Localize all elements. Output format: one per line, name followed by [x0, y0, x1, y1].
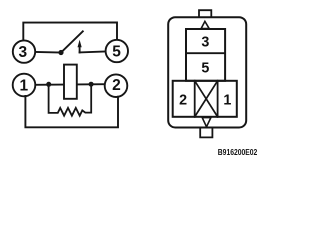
svg-text:2: 2 — [112, 77, 121, 94]
svg-text:2: 2 — [179, 93, 187, 109]
svg-text:1: 1 — [19, 78, 28, 95]
svg-text:3: 3 — [201, 34, 209, 50]
svg-text:3: 3 — [18, 44, 27, 61]
svg-text:B916200E02: B916200E02 — [218, 147, 258, 157]
svg-text:5: 5 — [201, 60, 209, 76]
svg-text:1: 1 — [223, 93, 231, 109]
svg-text:5: 5 — [112, 44, 121, 61]
